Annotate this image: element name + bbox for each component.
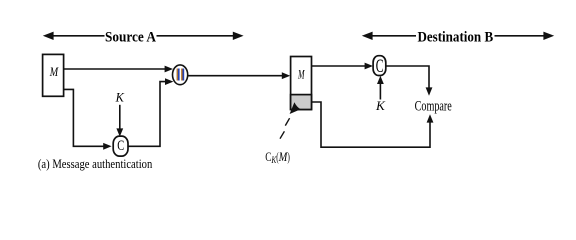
- svg-text:): ): [287, 150, 290, 164]
- wire C up to concat: [128, 78, 173, 146]
- transmitted block M (middle): [291, 57, 312, 110]
- MAC function C (destination): [373, 56, 386, 77]
- MAC function C (source): [113, 136, 128, 156]
- Source A span arrow: [43, 29, 244, 45]
- wire MAC field to Compare: [312, 102, 434, 147]
- arrow K up into C: [377, 76, 384, 100]
- svg-text:M: M: [49, 64, 59, 79]
- wire block to C (destination): [312, 63, 374, 70]
- svg-text:C: C: [376, 56, 384, 77]
- leader dashes: [280, 118, 290, 139]
- svg-text:(a) Message authentication: (a) Message authentication: [38, 156, 153, 171]
- svg-text:Destination B: Destination B: [417, 29, 493, 45]
- arrow K down into C: [116, 105, 123, 137]
- leader arrowhead into MAC field: [290, 102, 301, 114]
- wire C down to Compare: [386, 66, 432, 96]
- svg-text:K: K: [115, 90, 125, 104]
- svg-text:Compare: Compare: [415, 98, 452, 114]
- Destination B span arrow: [362, 29, 554, 45]
- svg-text:Source A: Source A: [105, 29, 156, 45]
- wire M down to C: [64, 89, 112, 149]
- wire M to concat: [64, 66, 173, 73]
- MAC field (shaded): [291, 95, 312, 110]
- svg-text:M: M: [278, 150, 288, 164]
- message block M (source): [43, 54, 64, 96]
- svg-text:M: M: [297, 66, 305, 81]
- wire concat to transmitted block: [188, 72, 291, 79]
- svg-text:C: C: [117, 138, 124, 154]
- concatenation node: [173, 65, 188, 85]
- svg-text:K: K: [375, 99, 385, 113]
- label CK(M): [265, 150, 290, 166]
